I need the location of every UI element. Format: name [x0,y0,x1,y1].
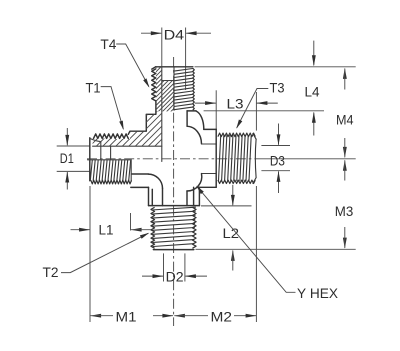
hex bottom face [149,205,200,207]
dimension M2 [174,314,185,318]
svg-text:L1: L1 [99,222,114,238]
left port external thread [90,160,92,180]
svg-text:T1: T1 [86,81,101,97]
left port face [89,138,91,181]
top port thread left boundary at axis [173,68,175,111]
svg-text:T2: T2 [43,265,59,281]
extension line L1 right (left port thread end) [130,213,132,231]
svg-text:T3: T3 [270,80,285,96]
left port thread right boundary [130,160,132,182]
horizontal centerline [87,158,262,160]
svg-text:Y HEX: Y HEX [297,286,339,302]
bottom-left neck fillet [148,174,162,188]
body section staircase outline [128,101,156,134]
extension line bottom port end (M3 bottom reference) [196,248,356,250]
dimension L3 [195,102,216,104]
hex left shoulder [131,186,149,188]
extension lines D1 [57,145,90,147]
svg-text:D4: D4 [164,28,185,44]
extension line D4 left [161,28,163,67]
right arm top shoulder [204,128,216,130]
svg-text:D1: D1 [60,151,74,167]
right port external thread [219,136,221,181]
dimension D1 [66,128,68,145]
svg-text:M2: M2 [211,309,233,325]
right arm neck lines [202,143,217,145]
dimension D2 [142,275,163,277]
bottom port end face [153,249,193,251]
top stud thread root line (section) [161,67,163,162]
extension lines D2 [163,253,165,281]
top stud top face [156,66,193,68]
dimension L1 [71,229,90,231]
top-right stud base fillet [187,110,196,112]
dimension M3 [343,160,347,171]
svg-text:M4: M4 [336,113,354,129]
svg-text:M1: M1 [116,309,137,325]
left port chamfer [90,138,101,141]
top stud left thread crest profile [152,69,156,101]
vertical centerline [173,57,175,326]
dimension D3 [278,124,280,145]
extension line hex bottom (L2 top reference) [201,205,252,207]
svg-text:D2: D2 [166,269,184,285]
right port hex face [215,129,217,187]
left arm neck bottom line [132,173,149,175]
left port top thread crest profile [94,134,129,139]
svg-text:D3: D3 [270,153,285,169]
extension line top port end (M4 top reference) [195,66,356,68]
extension line left port end (M1 left) [89,186,91,322]
bottom port external thread [151,207,195,210]
top port counterbore line [162,80,174,82]
left port thread top boundary at axis [88,159,132,161]
dimension L4 [313,41,315,66]
svg-text:T4: T4 [100,37,116,53]
dimension D4 [141,32,161,34]
right arm bottom shoulder [199,186,217,188]
dimension L2 [232,185,234,205]
extension line L3 right / M2 right (right port end) [255,92,257,131]
extension lines D3 [261,145,290,147]
top port external thread [174,69,193,72]
hex outline [148,187,150,205]
top arm right neck line and fillet [186,111,188,126]
dimension M1 [90,314,101,318]
section hatch bottom line (left arm thread root) [93,145,162,147]
svg-text:L4: L4 [305,84,320,100]
dimension M4 [343,68,347,79]
extension line D4 right [185,28,187,91]
svg-text:L3: L3 [227,97,244,113]
extension line L3 left (hex face extended) [215,90,217,129]
svg-text:M3: M3 [335,204,354,220]
bottom-right neck fillet [187,174,202,191]
extension line mid right (M4/M3 boundary) [262,158,356,160]
extension line top stud base (L4 bottom reference) [204,110,324,112]
right port end chamfer [253,134,256,140]
